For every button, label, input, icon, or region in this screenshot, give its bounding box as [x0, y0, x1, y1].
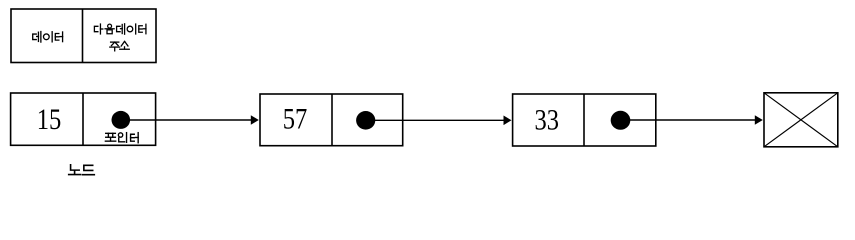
- node N1 pointer dot: [112, 111, 131, 129]
- label: 포인터 (pointer): [105, 133, 138, 143]
- null box X diagonal 2: [764, 93, 838, 147]
- legend box (data / next-address): [11, 9, 156, 63]
- label: 데이터 (data): [33, 32, 63, 43]
- wire: node N2 pointer to node N3: [371, 119, 505, 121]
- node box N2: [260, 94, 403, 146]
- node N2 value 57: [283, 103, 308, 136]
- label: 노드 (node): [69, 165, 95, 175]
- node N2 divider: [331, 94, 333, 146]
- node N3 divider: [583, 94, 585, 146]
- wire: node N3 pointer to null box: [626, 119, 756, 121]
- node N3 pointer dot: [611, 111, 631, 130]
- wire: node N1 pointer to node N2: [126, 119, 252, 121]
- wire: node N2 pointer to node N3 head: [504, 116, 512, 126]
- label: 다음데이터 (next data): [94, 24, 146, 34]
- null box X diagonal 1: [764, 93, 838, 147]
- node N1 value 15: [37, 103, 62, 136]
- svg-text:57: 57: [283, 103, 308, 136]
- svg-text:33: 33: [535, 104, 560, 137]
- svg-text:15: 15: [37, 103, 62, 136]
- node box N3: [513, 94, 656, 146]
- node box N1: [11, 93, 156, 145]
- wire: node N1 pointer to node N2 head: [251, 115, 259, 125]
- legend divider: [82, 9, 84, 63]
- node N2 pointer dot: [356, 111, 375, 130]
- wire: node N3 pointer to null box head: [755, 115, 763, 125]
- node N3 value 33: [535, 104, 560, 137]
- node N1 divider: [82, 93, 84, 145]
- label: 주소 (address): [110, 41, 129, 50]
- null terminator box: [764, 93, 838, 147]
